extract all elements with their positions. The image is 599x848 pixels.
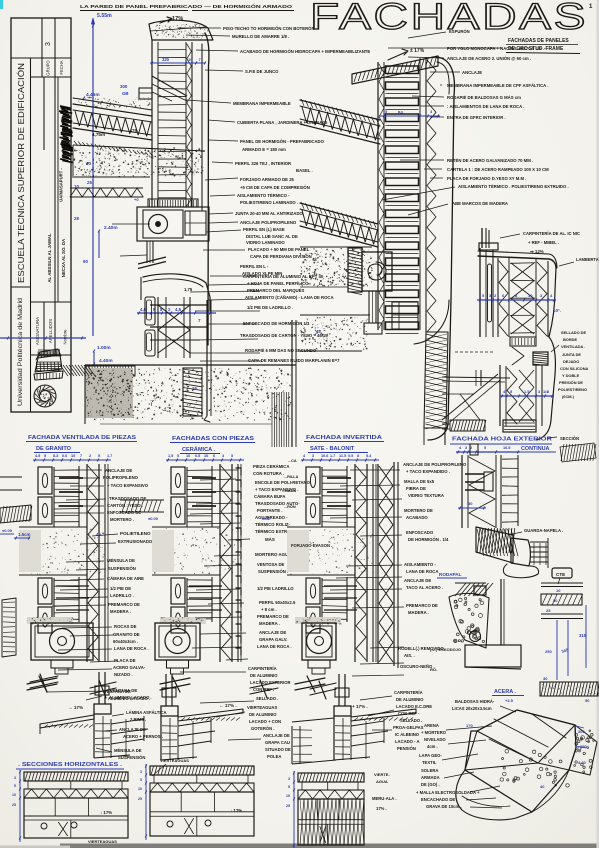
university seal sketch: [34, 385, 56, 407]
svg-text:1.5: 1.5: [524, 389, 530, 394]
svg-text:ARMADO E = 180 mm: ARMADO E = 180 mm: [242, 147, 286, 152]
svg-text:Nombre: Nombre: [63, 329, 68, 345]
svg-text:SATE - BALONIT: SATE - BALONIT: [310, 446, 355, 452]
svg-text:+ 17% .: + 17% .: [352, 704, 368, 709]
svg-text:RODAPIÉ DE BALDOSAS G MÁS cm: RODAPIÉ DE BALDOSAS G MÁS cm: [447, 95, 521, 100]
detail C bottom hatch wedge left: [450, 420, 485, 431]
break line under M1 left: [30, 674, 58, 692]
svg-text:CARPINTERÍA: CARPINTERÍA: [394, 690, 423, 695]
detail B upper truss deck: [300, 100, 380, 120]
svg-text:45: 45: [316, 329, 321, 334]
svg-text:IC ALBEINO: IC ALBEINO: [395, 732, 420, 737]
horizontal section S2: [150, 766, 254, 775]
svg-text:1/2 PIE DE: 1/2 PIE DE: [110, 586, 131, 591]
svg-text:+ REF - MIBEL .: + REF - MIBEL .: [528, 240, 559, 245]
detail A sill assembly: [143, 274, 210, 310]
svg-text:11.5: 11.5: [339, 454, 346, 458]
detail M2 leaders: [212, 469, 238, 471]
svg-text:FACHADA VENTILADA DE PIEZAS: FACHADA VENTILADA DE PIEZAS: [28, 435, 136, 441]
svg-text:±0.00: ±0.00: [148, 516, 159, 521]
svg-text:PREMARCO DE: PREMARCO DE: [257, 614, 289, 619]
detail C label carpinteria: [500, 234, 520, 238]
svg-text:ACERO GALVA-: ACERO GALVA-: [113, 665, 146, 670]
svg-text:BORDE: BORDE: [563, 337, 577, 342]
CTE box: [552, 568, 572, 578]
detail M4 left bolts: [465, 473, 484, 475]
svg-text:6: 6: [213, 454, 215, 458]
detail B lower storey slab: [300, 314, 370, 316]
svg-text:SECCIÓN: SECCIÓN: [560, 436, 579, 441]
svg-text:28: 28: [74, 216, 79, 221]
svg-text:4.40m: 4.40m: [99, 358, 113, 364]
detail B annotation leaders: [388, 47, 502, 49]
svg-text:25: 25: [286, 804, 290, 808]
svg-text:8: 8: [357, 454, 359, 458]
svg-text:DE ALUMINIO: DE ALUMINIO: [250, 673, 278, 678]
svg-text:25: 25: [87, 180, 92, 185]
svg-text:ENFOSCADO DE HORMIGÓN 1/3: ENFOSCADO DE HORMIGÓN 1/3: [243, 321, 310, 326]
svg-text:10: 10: [556, 588, 561, 593]
detail B murete hatch block: [348, 248, 362, 292]
sill sketch M2: [165, 674, 167, 706]
svg-text:(.L.) ESKODOJO: (.L.) ESKODOJO: [430, 647, 461, 652]
break line under M1 right: [90, 680, 116, 698]
detail A floor zigzag strip: [70, 187, 143, 189]
detail M1 wall granito: [33, 459, 111, 461]
svg-text:POLEA: POLEA: [267, 754, 281, 759]
right band pair 1: [541, 582, 583, 584]
svg-text:3: 3: [465, 446, 467, 450]
censor scribble blob: [60, 106, 71, 108]
svg-text:4.5: 4.5: [35, 454, 40, 458]
svg-text:AISLAMIENTO TÉRMICO -: AISLAMIENTO TÉRMICO -: [237, 193, 290, 198]
detail M4 wall rails: [461, 455, 463, 528]
detail A left ledge upper: [139, 88, 152, 99]
svg-text:GRUPO: GRUPO: [46, 60, 51, 76]
svg-text:S.P.E DE JUNCO: S.P.E DE JUNCO: [245, 69, 279, 74]
svg-text:84: 84: [398, 110, 403, 115]
svg-text:NIZADO .: NIZADO .: [114, 672, 133, 677]
svg-text:FACHADAS DE PANELES: FACHADAS DE PANELES: [508, 38, 569, 44]
detail A roof truss deck: [73, 104, 152, 116]
svg-text:BASEL .: BASEL .: [296, 168, 313, 173]
svg-text:VIERTEAGUAS: VIERTEAGUAS: [160, 758, 189, 763]
detail M4 small post top: [470, 444, 478, 455]
detail A outer face lower: [206, 300, 208, 416]
detail A window head box: [137, 207, 209, 241]
svg-text:2 RIMS .: 2 RIMS .: [130, 717, 146, 722]
detail B lower truss deck: [300, 203, 378, 224]
svg-text:DEJADO: DEJADO: [563, 359, 579, 364]
detail B roller spiral: [368, 262, 386, 280]
svg-text:CON ROTURA .: CON ROTURA .: [253, 471, 284, 476]
detail C lower body rails: [499, 365, 501, 426]
svg-text:ACABADO: ACABADO: [406, 515, 428, 520]
svg-text:60x40x3cm .: 60x40x3cm .: [113, 639, 138, 644]
svg-text:VIERTE-: VIERTE-: [374, 772, 390, 777]
svg-text:+5 CM DE CAPA DE COMPRESIÓN: +5 CM DE CAPA DE COMPRESIÓN: [240, 185, 310, 190]
svg-text:30: 30: [543, 676, 548, 681]
detail A jamb bolts: [150, 304, 208, 306]
svg-text:AISLAMIENTO TÉRMICO . POLIEST: AISLAMIENTO TÉRMICO . POLIESTIRENO EXTRU…: [458, 184, 569, 189]
castle logo sketch: [35, 355, 62, 372]
svg-text:17%: 17%: [172, 16, 183, 22]
svg-text:GUARDA-NAPELA .: GUARDA-NAPELA .: [524, 528, 563, 533]
svg-text:26: 26: [192, 386, 197, 391]
detail C blue dims lower: [500, 395, 554, 397]
svg-text:VIERTEAGUAS: VIERTEAGUAS: [88, 839, 117, 844]
right band pair 2: [541, 613, 583, 615]
svg-text:5: 5: [44, 454, 46, 458]
svg-text:SELLADO DE: SELLADO DE: [561, 330, 586, 335]
svg-text:ESPURÓN: ESPURÓN: [449, 29, 470, 34]
svg-text:10: 10: [186, 454, 190, 458]
svg-text:16.5: 16.5: [503, 446, 510, 450]
svg-text:LADRILLO .: LADRILLO .: [110, 593, 134, 598]
svg-text:250: 250: [580, 744, 587, 749]
svg-text:5.55m: 5.55m: [97, 13, 112, 19]
detail A slab right edge: [291, 320, 293, 447]
svg-text:ANCLAJE DE: ANCLAJE DE: [119, 727, 146, 732]
svg-text:ACERA .: ACERA .: [494, 689, 516, 695]
detail B left zigzag strip: [379, 64, 384, 328]
svg-text:MORTERO DE: MORTERO DE: [404, 508, 433, 513]
detail C waist couplers: [510, 337, 536, 346]
rodapie pebble wedge: [449, 593, 489, 648]
detail M4 blue dim 30: [458, 507, 486, 509]
svg-text:CERÁMICA .: CERÁMICA .: [182, 446, 215, 453]
svg-text:10: 10: [528, 293, 533, 298]
svg-text:POR YGLO MONOCAPA + NACRYL 20: POR YGLO MONOCAPA + NACRYL 20x70.5 cm .: [447, 46, 544, 51]
detail M4 brick courses right: [530, 541, 548, 543]
svg-text:10°.: 10°.: [553, 308, 561, 313]
svg-text:GOTERÓN .: GOTERÓN .: [251, 726, 275, 731]
svg-text:MORTERO .: MORTERO .: [110, 517, 134, 522]
svg-text:AISLAMIENTO -: AISLAMIENTO -: [404, 562, 436, 567]
svg-text:PORTANTE .: PORTANTE .: [257, 508, 282, 513]
svg-text:LACADO + CON: LACADO + CON: [249, 719, 281, 724]
svg-text:4,5: 4,5: [175, 307, 182, 312]
svg-text:VIDRIO TEXTURA: VIDRIO TEXTURA: [408, 493, 444, 498]
detail C upper outer curve: [549, 268, 556, 337]
detail B GRC panel blocks: [386, 66, 419, 74]
svg-text:5: 5: [140, 778, 142, 782]
svg-text:...CA: ...CA: [288, 459, 297, 463]
svg-text:MADERA .: MADERA .: [259, 621, 280, 626]
svg-text:SUSPENSIÓN: SUSPENSIÓN: [108, 566, 136, 571]
detail A ground hatch left margin: [60, 365, 68, 376]
svg-text:UNE: UNE: [262, 516, 271, 521]
svg-text:MADERA .: MADERA .: [408, 610, 429, 615]
svg-text:3: 3: [140, 770, 142, 774]
rodapie sketch top hatch: [455, 583, 466, 596]
detail A head box right insert: [185, 211, 206, 235]
detail M3 wall sate: [301, 459, 379, 461]
svg-text:25: 25: [546, 608, 551, 613]
cyan mark top-left: [0, 0, 3, 9]
svg-text:5: 5: [288, 785, 290, 789]
svg-text:0.5: 0.5: [348, 454, 353, 458]
svg-text:FORJADO ARMADO DE 25: FORJADO ARMADO DE 25: [240, 177, 295, 182]
svg-text:UA/MASAPURT -: UA/MASAPURT -: [59, 168, 64, 202]
svg-text:ENFOSCADO DE: ENFOSCADO DE: [107, 510, 141, 515]
svg-text:30: 30: [468, 501, 473, 506]
detail C top mullion post: [481, 228, 483, 248]
detail A outer face curve: [205, 33, 209, 345]
svg-text:RO-: RO-: [430, 667, 438, 672]
svg-text:VIDRIO LAMINADO: VIDRIO LAMINADO: [246, 240, 285, 245]
rodapie wall line: [500, 579, 502, 645]
detail A wall rib zigzag: [187, 44, 192, 206]
svg-text:LA PARED DE PANEL PREFABRICADO: LA PARED DE PANEL PREFABRICADO — DE HORM…: [80, 2, 292, 9]
svg-text:17% .: 17% .: [376, 806, 387, 811]
detail B wall rails: [377, 62, 379, 330]
detail B stud zigzag strip: [427, 60, 436, 332]
detail A sill blue dim chain: [137, 312, 216, 314]
detail C lower X bracing: [507, 368, 517, 424]
svg-text:+ MORTERO: + MORTERO: [421, 730, 447, 735]
svg-text:EXTRUSIONADO .: EXTRUSIONADO .: [118, 539, 155, 544]
detail A diagonal braces: [152, 76, 187, 96]
svg-text:← 475: ← 475: [124, 128, 137, 133]
svg-text:ASIGNATURA: ASIGNATURA: [35, 317, 40, 345]
svg-text:LAPA GEO-: LAPA GEO-: [419, 753, 442, 758]
svg-text:SOLERA: SOLERA: [421, 768, 438, 773]
svg-text:FACHADA HOJA EXTERIOR: FACHADA HOJA EXTERIOR: [452, 437, 552, 443]
svg-text:ENFOSCADO: ENFOSCADO: [406, 530, 434, 535]
svg-text:5: 5: [14, 784, 16, 788]
svg-text:320: 320: [162, 57, 170, 62]
detail A ground slab: [85, 364, 296, 366]
svg-text:3: 3: [288, 777, 290, 781]
svg-text:10: 10: [204, 454, 208, 458]
svg-text:PLACA DE: PLACA DE: [114, 658, 136, 663]
scanner edge right: [597, 0, 599, 848]
svg-text:1.7: 1.7: [107, 454, 112, 458]
svg-text:MALLA DE 5x5: MALLA DE 5x5: [404, 479, 435, 484]
svg-text:SUSPENSIÓN: SUSPENSIÓN: [118, 755, 145, 760]
detail B mullion below box: [368, 291, 370, 323]
svg-text:90: 90: [83, 259, 88, 264]
svg-text:ANCLAJE DE ACERO 2. UNIÓN @: ANCLAJE DE ACERO 2. UNIÓN @ 60 cm .: [447, 56, 531, 61]
right blue verticals: [556, 620, 558, 680]
svg-text:250: 250: [545, 649, 552, 654]
detail A brick jamb hatch: [183, 368, 202, 416]
svg-text:VENTILADA .: VENTILADA .: [561, 344, 585, 349]
svg-text:CARPINTERÍA: CARPINTERÍA: [248, 666, 277, 671]
svg-text:PERFIL 326 TEJ , INTERIOR: PERFIL 326 TEJ , INTERIOR: [235, 161, 291, 166]
detail A floor slab speckled: [73, 145, 205, 151]
svg-text:1.00m: 1.00m: [97, 345, 111, 351]
detail C lower outer curve: [536, 337, 555, 440]
svg-text:← 17% .: ← 17% .: [219, 703, 237, 708]
svg-text:MERU-ALA .: MERU-ALA .: [372, 796, 397, 801]
svg-text:GRAVA DE 10cm .: GRAVA DE 10cm .: [426, 804, 462, 809]
svg-text:DISTAL LUB SANC AL DE: DISTAL LUB SANC AL DE: [246, 234, 298, 239]
svg-text:25: 25: [12, 803, 16, 807]
acera front face edge: [465, 763, 569, 770]
svg-text:POLIETILENO: POLIETILENO: [120, 531, 151, 536]
svg-text:RODAPAL: RODAPAL: [439, 572, 462, 577]
svg-text:NIVELADO: NIVELADO: [424, 737, 446, 742]
svg-text:. SECCIONES HORIZONTALES .: . SECCIONES HORIZONTALES .: [18, 762, 122, 768]
svg-text:PANEL DE HORMIGÓN - PREFABRICA: PANEL DE HORMIGÓN - PREFABRICADO: [240, 139, 325, 144]
svg-text:FACHADA INVERTIDA: FACHADA INVERTIDA: [306, 435, 382, 441]
detail M4 kerb block: [511, 538, 530, 566]
right hatched bar 3: [540, 682, 598, 696]
detail A datum line 0.00: [0, 337, 86, 339]
svg-text:ANCLAJE DE: ANCLAJE DE: [404, 578, 431, 583]
svg-text:+ MALLA ELECTROSOLDADA +: + MALLA ELECTROSOLDADA +: [416, 790, 480, 795]
svg-text:TACO AL ACERO .: TACO AL ACERO .: [406, 585, 443, 590]
svg-text:↓ 17%: ↓ 17%: [100, 810, 112, 815]
svg-text:SELLADO .: SELLADO .: [256, 696, 278, 701]
detail B blue width dims: [380, 115, 440, 117]
detail A parapet cap: [149, 20, 213, 40]
svg-text:MEMBRANA IMPERMEABLE DE CPF: MEMBRANA IMPERMEABLE DE CPF ASFÁLTICA .: [447, 83, 548, 88]
svg-text:ARMADA: ARMADA: [421, 775, 440, 780]
detail B floor slab speckled: [299, 248, 372, 287]
svg-text:LACADO EXTERIOR: LACADO EXTERIOR: [250, 680, 290, 685]
horizontal section S1: [24, 772, 128, 781]
svg-text:GRAPA GALV.: GRAPA GALV.: [259, 637, 287, 642]
svg-text:POLIPROPILENO: POLIPROPILENO: [103, 475, 139, 480]
svg-text:ENCACHADO DE: ENCACHADO DE: [421, 797, 455, 802]
svg-text:3: 3: [45, 42, 52, 46]
svg-text:→ 17%: → 17%: [68, 705, 83, 710]
detail B brick jamb hatch lower right: [424, 332, 448, 428]
svg-text:ENTRA DE GFRC INTERIOR .: ENTRA DE GFRC INTERIOR .: [447, 115, 506, 120]
svg-text:4.60: 4.60: [578, 760, 587, 765]
detail M3 big X brace outer: [377, 464, 379, 664]
sill sketch M3: [338, 674, 340, 706]
svg-text:10.6: 10.6: [321, 454, 328, 458]
horizontal section S3: [298, 773, 364, 782]
svg-text:SELLADO .: SELLADO .: [400, 718, 422, 723]
svg-text:CÁMARA BUFA: CÁMARA BUFA: [254, 494, 285, 499]
svg-text:10: 10: [12, 793, 16, 797]
svg-text:MURELLO DE AMARRE 1/8 .: MURELLO DE AMARRE 1/8 .: [232, 34, 289, 39]
svg-text:4,5: 4,5: [140, 307, 147, 312]
svg-text:+0: +0: [134, 197, 139, 202]
detail M1 leaders: [76, 469, 102, 471]
svg-text:PENSIÓN: PENSIÓN: [397, 746, 416, 751]
svg-text:CÁMARA DE AIRE: CÁMARA DE AIRE: [107, 576, 144, 581]
svg-text:CONTINUA: CONTINUA: [521, 446, 550, 452]
svg-text:ANCLAJE: ANCLAJE: [462, 70, 482, 75]
sill sketch M1: [98, 672, 100, 704]
svg-text:DE HORMIGÓN . 1/4: DE HORMIGÓN . 1/4: [408, 537, 449, 542]
detail A mullion below head: [146, 241, 148, 263]
detail A lintel hatch: [148, 199, 198, 207]
svg-text:40: 40: [540, 784, 545, 789]
svg-text:AL ABSSILN AL JAMAL: AL ABSSILN AL JAMAL: [47, 233, 52, 283]
svg-text:50: 50: [553, 598, 558, 603]
svg-text:5: 5: [484, 446, 486, 450]
svg-text:CON SILICONA: CON SILICONA: [560, 366, 589, 371]
detail A annotation leaders: [178, 27, 221, 29]
acera top panel joints: [494, 719, 548, 747]
svg-text:FIBRA DE: FIBRA DE: [406, 486, 426, 491]
left margin sill fragment: [2, 598, 16, 657]
svg-text:1/2 PIE LADRILLO: 1/2 PIE LADRILLO: [257, 586, 294, 591]
svg-text:PREMARCO DE: PREMARCO DE: [406, 603, 438, 608]
svg-text:CTE: CTE: [556, 572, 565, 577]
svg-text:300: 300: [578, 729, 585, 734]
svg-text:CAPA DE REMANES RUIDO MARPLAN: CAPA DE REMANES RUIDO MARPLANIN E=7: [248, 358, 340, 363]
detail A jamb X brace assembly: [157, 297, 159, 358]
svg-text:AISLAMIENTO (CÁÑAMO) - LANA DE: AISLAMIENTO (CÁÑAMO) - LANA DE ROCA: [245, 295, 334, 300]
svg-text:Y DOBLE: Y DOBLE: [562, 373, 580, 378]
svg-text:ANCLAJE POLIPROPILENO: ANCLAJE POLIPROPILENO: [240, 220, 297, 225]
detail C dashed centreline: [455, 351, 493, 353]
svg-text:TÉRMICO ROLIZ-: TÉRMICO ROLIZ-: [255, 522, 291, 527]
rodapie skirting block: [465, 645, 521, 667]
svg-text:4,75m: 4,75m: [92, 132, 105, 137]
svg-text:± 17%: ± 17%: [410, 48, 425, 54]
svg-text:ACABADO DE HORMIGÓN HIDROCAPA: ACABADO DE HORMIGÓN HIDROCAPA + IMPERMEA…: [240, 49, 370, 54]
svg-text:GRANITO DE: GRANITO DE: [113, 632, 140, 637]
svg-text:CON REF .: CON REF .: [253, 687, 274, 692]
svg-text:AIS. .: AIS. .: [404, 653, 415, 658]
svg-text:TEXTIL: TEXTIL: [422, 760, 437, 765]
svg-text:RODAPIÉ 6 MM DAS NO SECUNDO: RODAPIÉ 6 MM DAS NO SECUNDO: [245, 348, 317, 353]
svg-text:MÁS: MÁS: [265, 537, 275, 542]
svg-text:Universidad Politécnica de Mad: Universidad Politécnica de Madrid: [17, 297, 24, 406]
svg-text:SITUADO DE: SITUADO DE: [265, 747, 291, 752]
svg-text:RETÉN DE ACERO GALVANIZADO 70: RETÉN DE ACERO GALVANIZADO 70 MM .: [447, 158, 533, 163]
svg-text:DE (GO) .: DE (GO) .: [421, 782, 440, 787]
svg-text:PERFIL EN L -: PERFIL EN L -: [240, 264, 269, 269]
svg-text:10: 10: [188, 57, 193, 62]
svg-text:LANA DE ROCA .: LANA DE ROCA .: [257, 644, 292, 649]
svg-text:2.40m: 2.40m: [104, 225, 118, 231]
svg-text:ANCLAJE DE POLIPROPILENO: ANCLAJE DE POLIPROPILENO: [403, 462, 467, 467]
svg-text:45: 45: [96, 532, 101, 537]
svg-text:LAMBERTA: LAMBERTA: [576, 257, 599, 262]
svg-text:25: 25: [138, 797, 142, 801]
detail M4 blue dims: [456, 451, 520, 453]
svg-text:MADERA .: MADERA .: [110, 609, 131, 614]
svg-text:1/4: 1/4: [543, 389, 549, 394]
detail M4 wall bracing: [469, 457, 495, 527]
svg-text:PREMARCO DEL MARQUÉS: PREMARCO DEL MARQUÉS: [247, 288, 304, 293]
detail A break slashes: [138, 257, 166, 264]
svg-text:JUNTA DE: JUNTA DE: [562, 352, 581, 357]
svg-text:PRESIÓN DE: PRESIÓN DE: [559, 380, 583, 385]
detail M1 left arm hatch: [0, 505, 31, 523]
acera base blob: [456, 770, 532, 820]
svg-text:VIERTEAGUAS: VIERTEAGUAS: [247, 705, 277, 710]
svg-text:MEMBRANA IMPERMEABLE: MEMBRANA IMPERMEABLE: [233, 101, 291, 106]
svg-text:AGUA: AGUA: [376, 779, 388, 784]
detail M2 left arm lines: [120, 499, 164, 501]
svg-text:LANA DE ROCA .: LANA DE ROCA .: [114, 646, 149, 651]
svg-text:GRAPA CAU: GRAPA CAU: [265, 740, 290, 745]
svg-text:VENTANA DE: VENTANA DE: [104, 689, 131, 694]
svg-text:3: 3: [222, 454, 224, 458]
svg-text:3: 3: [312, 454, 314, 458]
svg-text:LANA DE ROCA: LANA DE ROCA: [406, 569, 438, 574]
detail A jamb slotted profiles: [145, 297, 155, 325]
acera kerb pebbled strip: [569, 725, 597, 775]
svg-text:300: 300: [120, 84, 128, 89]
svg-text:+ TACO EXPANSIVO: + TACO EXPANSIVO: [107, 483, 149, 488]
svg-text:...RILLA: ...RILLA: [284, 475, 299, 479]
svg-text:PISO-TECHO TO HORMIGÓN CON BOT: PISO-TECHO TO HORMIGÓN CON BOTERÓN: [223, 26, 315, 31]
svg-text:: AISLAMIENTOS DE LANA DE ROCA: : AISLAMIENTOS DE LANA DE ROCA .: [447, 104, 524, 109]
svg-text:APELLIDOS: APELLIDOS: [48, 319, 53, 343]
